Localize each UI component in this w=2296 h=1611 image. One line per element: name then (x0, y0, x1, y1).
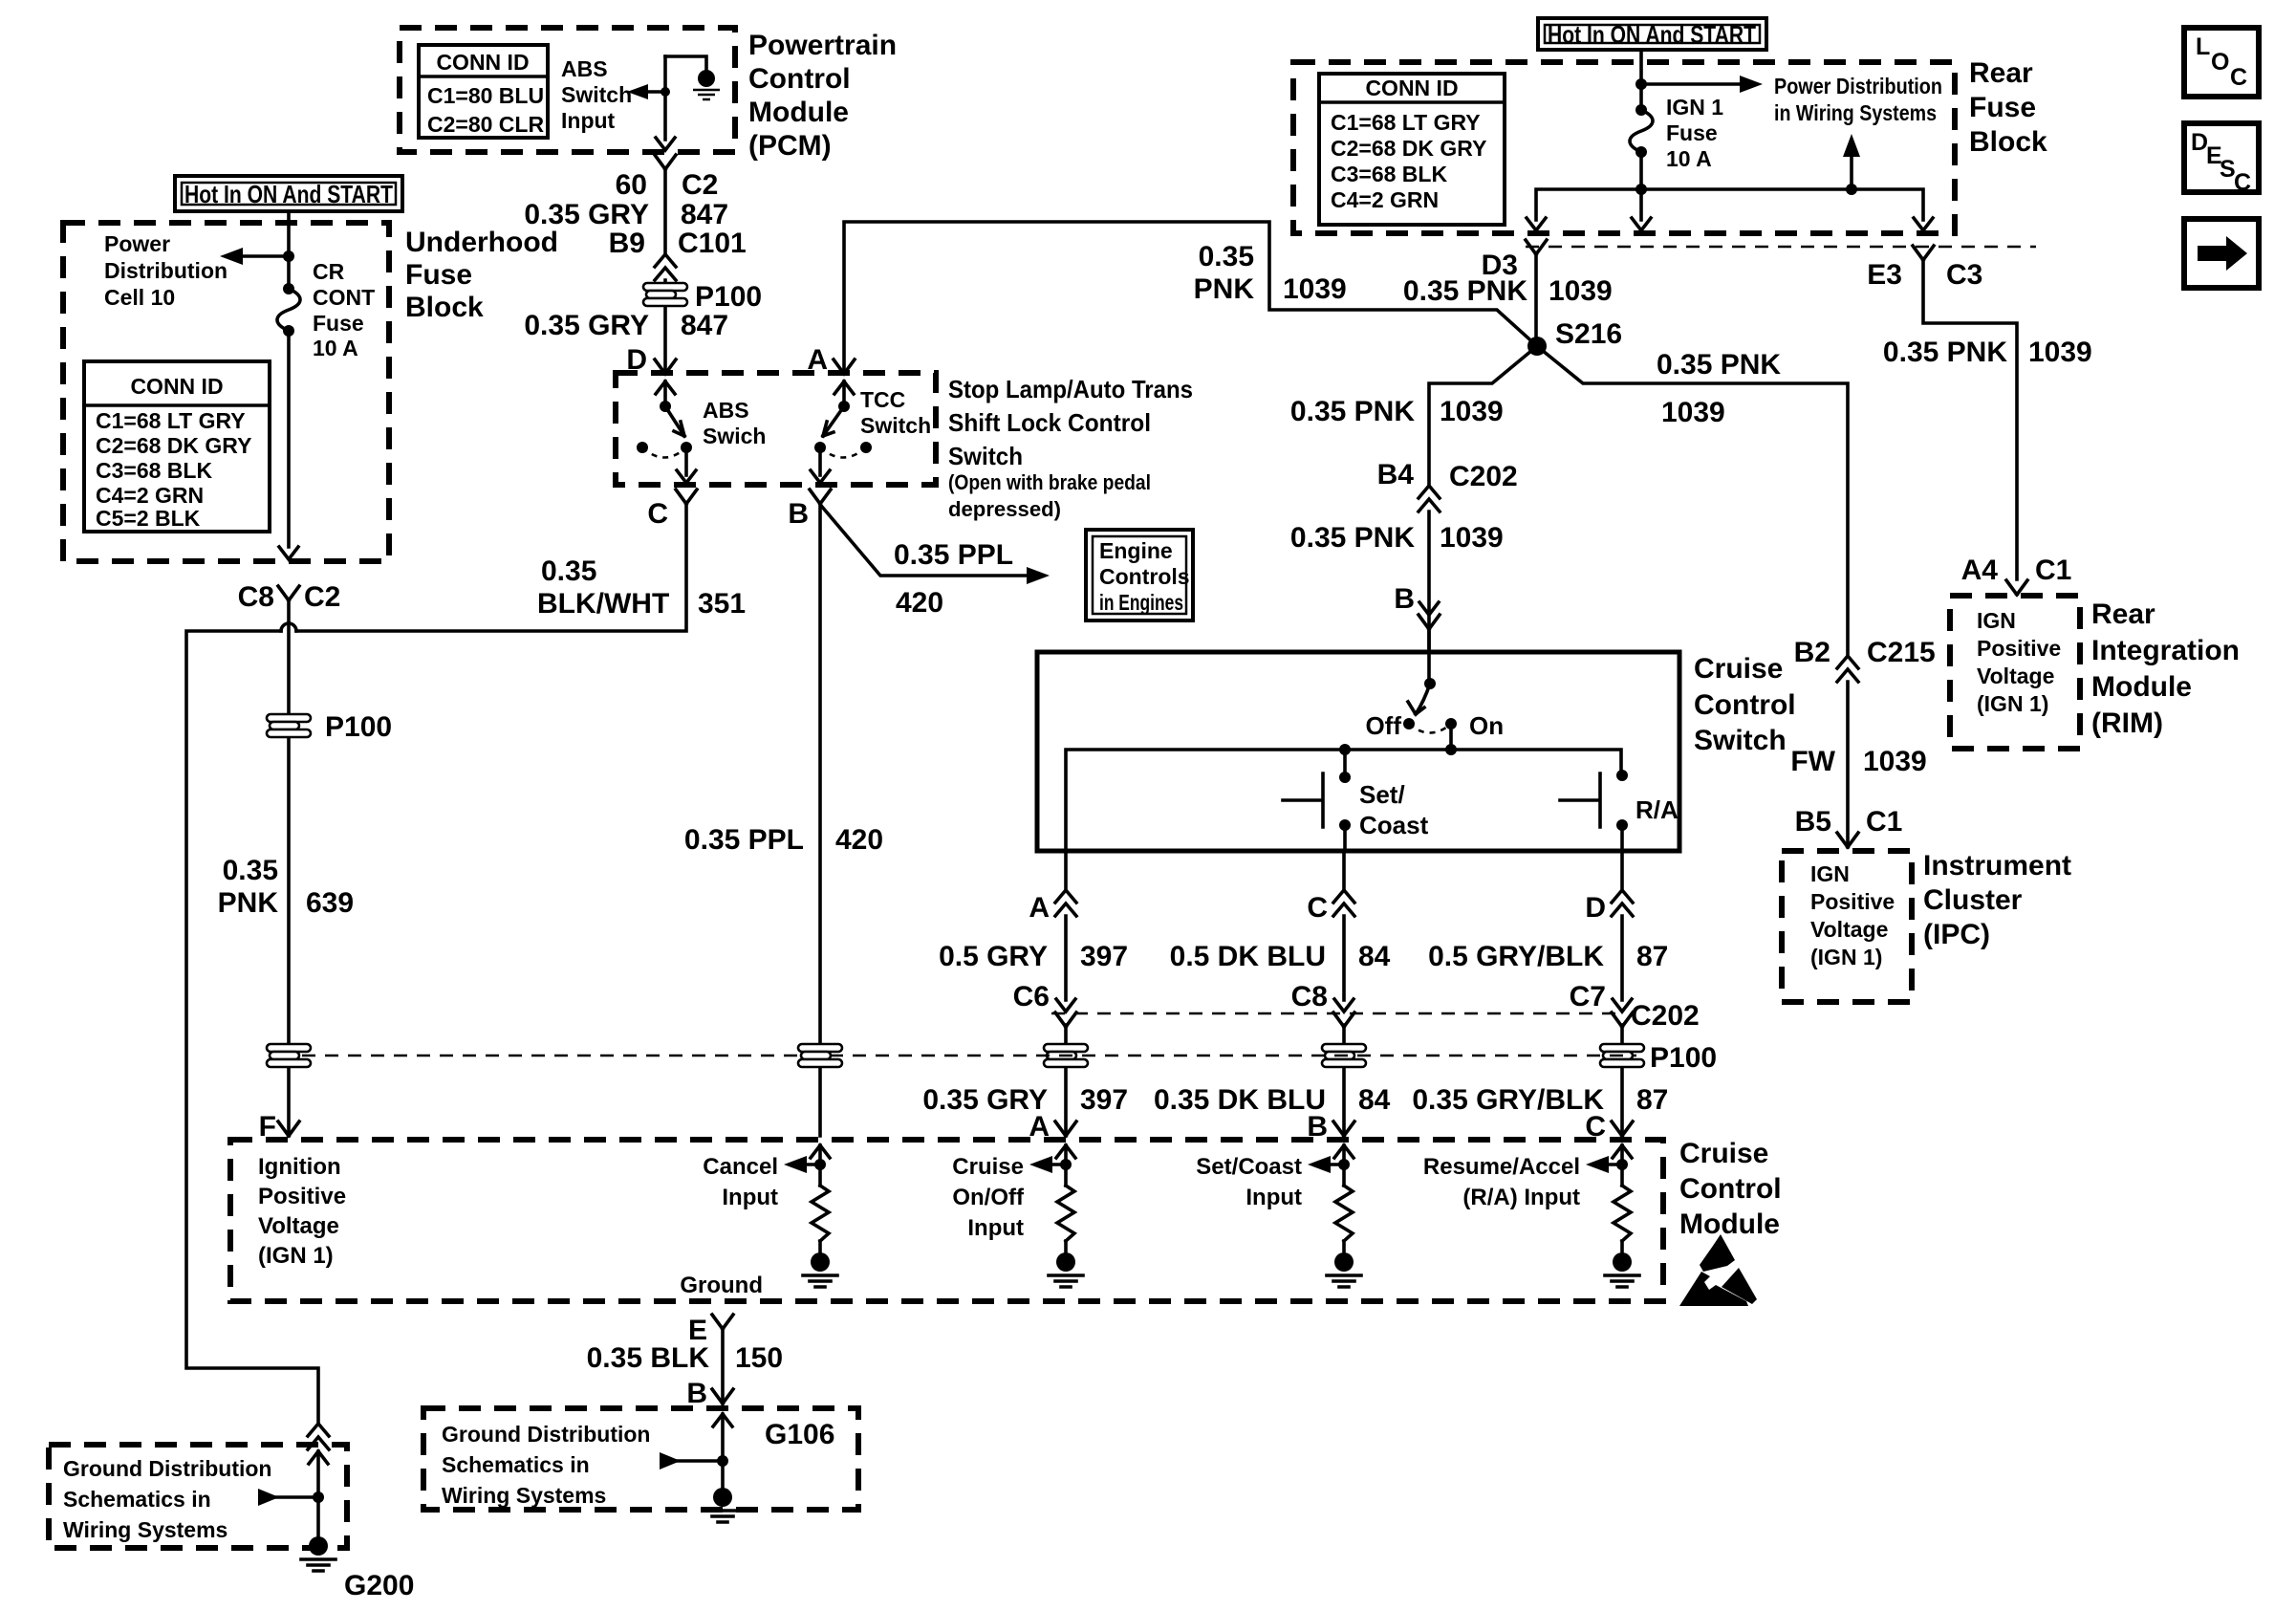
arrow: up to Power Distribution (1843, 134, 1860, 189)
svg-text:Module: Module (1679, 1208, 1780, 1240)
svg-text:847: 847 (681, 199, 728, 230)
wire: 0.35 PPL 420 down to module D (818, 504, 822, 1136)
svg-text:Switch: Switch (948, 442, 1023, 470)
module input: Resume/Accel (C) (1613, 1145, 1632, 1158)
svg-text:639: 639 (306, 887, 354, 919)
wire: S216 to IPC branch (down-right) (1537, 346, 1848, 654)
splice S216 (1527, 337, 1547, 356)
CONN ID table (PCM) (419, 45, 548, 138)
labels: 0.35 / PNK / 1039 (A to S216) (1194, 241, 1347, 305)
wire: S216 to B4/C202 (down-left) (1429, 346, 1537, 486)
labels: FW / 1039 (1790, 746, 1926, 777)
R/A pushbutton (1560, 770, 1628, 851)
svg-text:C202: C202 (1449, 461, 1518, 492)
svg-text:Swich: Swich (703, 424, 766, 448)
LOC box (2184, 28, 2259, 97)
svg-text:Input: Input (561, 108, 616, 133)
svg-text:150: 150 (735, 1342, 783, 1374)
connector C8/C2 labels (238, 581, 341, 613)
svg-text:C202: C202 (1631, 1000, 1700, 1032)
wire: PNK 639 from C8/C2 down to F (287, 600, 291, 1136)
node: power distribution tap (283, 250, 294, 262)
svg-text:Rear: Rear (1969, 57, 2033, 89)
svg-text:P100: P100 (695, 281, 762, 313)
svg-text:0.5 GRY/BLK: 0.5 GRY/BLK (1428, 941, 1604, 972)
connector Y at IPC pin B5/C1 (1837, 833, 1858, 847)
wire hop over PNK 639 (281, 623, 296, 631)
svg-text:Control: Control (748, 63, 851, 95)
svg-text:S216: S216 (1555, 318, 1622, 350)
svg-text:0.35 GRY: 0.35 GRY (524, 310, 649, 341)
wire + arrow inside G200 (258, 1451, 328, 1536)
svg-text:60: 60 (616, 169, 647, 201)
svg-text:0.35 GRY: 0.35 GRY (524, 199, 649, 230)
svg-text:Instrument: Instrument (1923, 850, 2071, 882)
text: Ground Distribution Schematics in Wiring Systems (G200) (63, 1456, 271, 1542)
connector P100 dashed line (302, 1055, 1636, 1057)
svg-text:TCC: TCC (860, 387, 905, 412)
svg-text:0.35 PNK: 0.35 PNK (1403, 275, 1527, 307)
svg-text:C2: C2 (304, 581, 340, 613)
svg-text:C: C (2234, 169, 2251, 196)
svg-text:C8: C8 (1291, 981, 1328, 1012)
svg-text:Power: Power (104, 231, 170, 256)
text: ABS Switch Input (561, 56, 632, 133)
wire + arrow inside G106 (660, 1414, 732, 1488)
Stop Lamp/Auto Trans Shift Lock Control Switch dashed box (616, 373, 936, 485)
svg-text:Fuse: Fuse (1666, 120, 1718, 145)
labels: 0.35 PPL / 420 (vertical run) (684, 824, 883, 856)
svg-text:Ground Distribution: Ground Distribution (63, 1456, 271, 1481)
svg-text:Cruise: Cruise (1679, 1138, 1768, 1169)
svg-text:(PCM): (PCM) (748, 130, 832, 162)
labels: 0.35 GRY/BLK / 87 (1412, 1084, 1668, 1116)
svg-text:84: 84 (1358, 941, 1391, 972)
contact: On (1445, 718, 1457, 729)
svg-text:C215: C215 (1867, 637, 1936, 668)
svg-text:B5: B5 (1795, 806, 1831, 838)
wire: hot feed into rear fuse block (1639, 50, 1643, 110)
wire: switch output D (1620, 851, 1624, 1136)
svg-text:87: 87 (1636, 941, 1668, 972)
label: Rear Fuse Block (1969, 57, 2047, 158)
wire: PCM ABS switch input (663, 56, 667, 140)
svg-text:IGN: IGN (1977, 608, 2016, 633)
wire: BLK/WHT 351 from C to far left (296, 504, 686, 631)
svg-text:P100: P100 (325, 711, 392, 743)
labels: B9 / C101 (609, 228, 747, 259)
connector chevrons at G200 entry (308, 1424, 329, 1449)
svg-text:Hot In ON And START: Hot In ON And START (1548, 20, 1756, 49)
svg-text:Cell 10: Cell 10 (104, 285, 175, 310)
ground G106 (705, 1488, 740, 1522)
wire: 0.35 BLK 150 to G106 (721, 1329, 725, 1404)
svg-text:Schematics in: Schematics in (63, 1487, 211, 1512)
svg-text:L: L (2196, 33, 2210, 60)
svg-text:Underhood: Underhood (405, 227, 558, 258)
Cruise Control Module dashed box (230, 1140, 1663, 1301)
connector Y at C8/C2 (278, 586, 299, 600)
wire: TCC A up and over to S216 (844, 222, 1537, 374)
bulkhead connector P100 (GRY 847) (643, 283, 687, 306)
svg-text:CONT: CONT (313, 285, 375, 310)
svg-text:Coast: Coast (1359, 811, 1429, 839)
svg-text:C4=2 GRN: C4=2 GRN (1331, 187, 1439, 212)
svg-text:(Open with brake pedal: (Open with brake pedal (948, 470, 1151, 494)
node: bus at On (1445, 744, 1457, 755)
Underhood Fuse Block dashed box (63, 223, 389, 561)
svg-text:ABS: ABS (703, 398, 749, 423)
svg-text:0.35: 0.35 (541, 555, 596, 587)
svg-text:P100: P100 (1650, 1042, 1717, 1074)
labels: 0.35 PNK / 1039 (S216 to B4) (1290, 396, 1504, 427)
svg-text:0.35 PPL: 0.35 PPL (894, 539, 1013, 571)
svg-text:(IGN 1): (IGN 1) (1977, 691, 2048, 716)
svg-text:1039: 1039 (2028, 337, 2092, 368)
on/off switch blade (1408, 678, 1436, 714)
wire: fuse output bus (1536, 152, 1923, 220)
svg-text:C101: C101 (678, 228, 747, 259)
svg-text:10 A: 10 A (1666, 146, 1712, 171)
connector Y at module pin E (712, 1315, 733, 1329)
labels: E3 / C3 (1867, 259, 1982, 291)
label: Cruise Control Switch (1694, 653, 1796, 756)
labels: 0.35 DK BLU / 84 (1154, 1084, 1391, 1116)
svg-text:0.35 PNK: 0.35 PNK (1883, 337, 2007, 368)
text: IGN Positive Voltage (IGN 1) (IPC) (1810, 861, 1895, 969)
svg-text:Module: Module (2091, 671, 2192, 703)
svg-text:84: 84 (1358, 1084, 1391, 1116)
svg-text:in Engines: in Engines (1099, 590, 1183, 615)
label: Cruise Control Module (1679, 1138, 1782, 1240)
svg-text:C1=68 LT GRY: C1=68 LT GRY (96, 408, 246, 433)
svg-text:Engine: Engine (1099, 538, 1173, 563)
svg-text:On/Off: On/Off (952, 1185, 1025, 1210)
svg-text:Shift Lock Control: Shift Lock Control (948, 408, 1151, 437)
svg-text:CONN ID: CONN ID (1365, 76, 1458, 100)
svg-text:Voltage: Voltage (1810, 917, 1888, 942)
svg-text:depressed): depressed) (948, 497, 1061, 521)
svg-text:R/A: R/A (1635, 795, 1679, 824)
labels: 0.35 GRY / 847 (524, 199, 728, 230)
connector C202 dashed line (1051, 1012, 1615, 1015)
node: bus junction right (1846, 184, 1857, 195)
svg-text:(R/A) Input: (R/A) Input (1462, 1185, 1580, 1210)
svg-text:C1: C1 (1866, 806, 1902, 838)
connector Y at E3/C3 (1913, 246, 1934, 260)
svg-text:C4=2 GRN: C4=2 GRN (96, 483, 204, 508)
bulkhead connector P100 (PPL 420) (798, 1044, 842, 1067)
svg-text:C: C (1307, 892, 1328, 924)
CONN ID table (rear fuse block) (1319, 74, 1505, 225)
svg-text:C2=68 DK GRY: C2=68 DK GRY (96, 433, 251, 458)
ESD sensitive symbol (1679, 1234, 1757, 1306)
svg-text:Schematics in: Schematics in (442, 1452, 590, 1477)
label: Cruise On/Off Input (952, 1154, 1025, 1241)
label: Instrument Cluster (IPC) (1923, 850, 2071, 950)
wire: circuit 847 upper (663, 169, 667, 254)
label: ABS Swich (703, 398, 766, 448)
connector Y at stop lamp switch pin D (655, 359, 676, 374)
svg-text:Input: Input (722, 1185, 778, 1210)
label: Powertrain Control Module (PCM) (748, 30, 897, 162)
module input: Cancel (D) (811, 1145, 830, 1158)
text: Power Distribution in Wiring Systems (1774, 74, 1942, 125)
svg-text:CONN ID: CONN ID (130, 374, 223, 399)
svg-text:Positive: Positive (1977, 636, 2061, 661)
ground symbol inside PCM (665, 56, 720, 99)
Set/Coast pushbutton (1283, 750, 1351, 851)
svg-text:On: On (1469, 711, 1504, 740)
svg-text:Fuse: Fuse (405, 259, 472, 291)
connector Y at stop lamp pin C (676, 490, 697, 504)
svg-text:Ignition: Ignition (258, 1154, 341, 1180)
node: bus at Set/Coast (1339, 744, 1351, 755)
svg-text:Input: Input (1245, 1185, 1302, 1210)
svg-text:Power Distribution: Power Distribution (1774, 74, 1942, 98)
Instrument Cluster IGN dashed box (1782, 851, 1912, 1002)
text: Ground Distribution Schematics in Wiring Systems (G106) (442, 1422, 650, 1508)
svg-text:C1=80 BLU: C1=80 BLU (427, 83, 544, 108)
svg-text:0.35: 0.35 (223, 855, 278, 886)
connector Y at module pin F (278, 1121, 299, 1136)
TCC switch (inside) (811, 381, 872, 483)
svg-text:C1=68 LT GRY: C1=68 LT GRY (1331, 110, 1481, 135)
svg-text:420: 420 (896, 587, 943, 619)
connector dashed line C3 row (1526, 246, 2036, 249)
Engine Controls in Engines box (1086, 530, 1193, 620)
svg-text:Voltage: Voltage (258, 1213, 339, 1239)
label: Stop Lamp/Auto Trans Shift Lock Control Switch (948, 375, 1193, 521)
node: power distribution tap (RFB) (1635, 78, 1647, 90)
labels: B2 / C215 (1794, 637, 1936, 668)
labels: 0.5 GRY / 397 (939, 941, 1128, 972)
svg-text:C: C (2230, 64, 2247, 91)
svg-text:C2=68 DK GRY: C2=68 DK GRY (1331, 136, 1486, 161)
wire: switch bus (1066, 750, 1621, 851)
svg-text:Powertrain: Powertrain (748, 30, 897, 61)
wire: BLK/WHT to lower left (186, 631, 318, 1424)
svg-text:in Wiring Systems: in Wiring Systems (1774, 100, 1937, 125)
arrow: ABS Switch Input (627, 84, 665, 99)
label: Set/ Coast (1359, 780, 1429, 839)
connector Y at module pin B (1333, 1121, 1354, 1136)
wire: fuse to C8 exit (287, 331, 291, 547)
svg-text:Wiring Systems: Wiring Systems (63, 1517, 227, 1542)
svg-text:1039: 1039 (1549, 275, 1613, 307)
svg-text:BLK/WHT: BLK/WHT (537, 588, 669, 620)
svg-text:PNK: PNK (1194, 273, 1255, 305)
Cruise Control Switch box (1037, 652, 1679, 851)
text: Power Distribution Cell 10 (104, 231, 227, 310)
svg-text:0.35 BLK: 0.35 BLK (587, 1342, 710, 1374)
svg-text:A: A (1029, 892, 1050, 924)
svg-text:(RIM): (RIM) (2091, 708, 2163, 739)
svg-text:C2: C2 (682, 169, 718, 201)
connector C7 at C202 (1613, 999, 1632, 1012)
wire: branch B to Engine Controls (822, 507, 1050, 584)
svg-text:C7: C7 (1570, 981, 1606, 1012)
connector B9/C101 (655, 254, 676, 280)
svg-text:0.35 PNK: 0.35 PNK (1657, 349, 1781, 381)
svg-text:O: O (2211, 49, 2229, 76)
connector C6 at C202 (1056, 999, 1075, 1012)
connector Y at module pin C (1612, 1121, 1633, 1136)
svg-text:Set/: Set/ (1359, 780, 1405, 809)
svg-text:420: 420 (835, 824, 883, 856)
svg-text:Controls: Controls (1099, 564, 1190, 589)
svg-text:IGN: IGN (1810, 861, 1850, 886)
label: IGN 1 Fuse 10 A (1666, 95, 1723, 171)
svg-text:Switch: Switch (860, 413, 931, 438)
dashed throw arc (off/on) (1409, 724, 1451, 733)
svg-text:Positive: Positive (1810, 889, 1895, 914)
header box: Hot In ON And START (right) (1538, 18, 1766, 50)
svg-text:Distribution: Distribution (104, 258, 227, 283)
svg-text:C3=68 BLK: C3=68 BLK (96, 458, 212, 483)
labels: 0.35 GRY / 847 (lower) (524, 310, 728, 341)
arrows at RFB bottom edge (1527, 218, 1546, 230)
connector B4/C202 (1419, 486, 1440, 512)
svg-text:0.5 GRY: 0.5 GRY (939, 941, 1048, 972)
labels: 0.35 PPL / 420 (894, 539, 1013, 619)
labels: A4 / C1 (1961, 555, 2072, 586)
G200 dashed box (49, 1445, 347, 1548)
labels: 0.35 PNK / 1039 (E3) (1883, 337, 2092, 368)
svg-text:Block: Block (1969, 126, 2047, 158)
connector Y at PCM pin 60/C2 (655, 155, 676, 169)
arrow box (2184, 219, 2259, 288)
svg-text:Cruise: Cruise (1694, 653, 1783, 685)
connector C8 at C202 (1334, 999, 1354, 1012)
svg-text:C6: C6 (1013, 981, 1050, 1012)
label: Underhood Fuse Block (405, 227, 558, 323)
connector B2/C215 (1837, 656, 1858, 682)
svg-text:Fuse: Fuse (313, 311, 364, 336)
svg-text:Cluster: Cluster (1923, 884, 2023, 916)
svg-text:0.35 GRY/BLK: 0.35 GRY/BLK (1412, 1084, 1604, 1116)
svg-text:0.35 DK BLU: 0.35 DK BLU (1154, 1084, 1326, 1116)
module input: Cruise On/Off (A) (1056, 1145, 1075, 1158)
wire: E3 to RIM A4 (1923, 260, 2017, 579)
svg-text:0.35 PNK: 0.35 PNK (1290, 396, 1415, 427)
svg-text:Ground Distribution: Ground Distribution (442, 1422, 650, 1447)
svg-text:Cancel: Cancel (703, 1154, 778, 1180)
svg-text:A: A (807, 344, 828, 376)
svg-text:C: C (647, 498, 668, 530)
svg-text:C5=2 BLK: C5=2 BLK (96, 506, 201, 531)
wire: C215 to IPC B5 (1846, 682, 1850, 847)
svg-text:CONN ID: CONN ID (436, 50, 529, 75)
svg-text:Control: Control (1694, 689, 1796, 721)
svg-text:(IGN 1): (IGN 1) (1810, 945, 1882, 969)
connector at switch pin C (1333, 890, 1354, 916)
svg-text:IGN 1: IGN 1 (1666, 95, 1723, 120)
connector at cruise switch pin B (1419, 602, 1439, 615)
connector Y at module pin A (1055, 1121, 1076, 1136)
svg-text:Ground: Ground (680, 1273, 763, 1298)
svg-text:G200: G200 (344, 1570, 414, 1601)
svg-text:Module: Module (748, 97, 849, 128)
connector at switch pin D (1612, 890, 1633, 916)
arrow: to Power Distribution in Wiring Systems (1641, 76, 1763, 93)
fuse: CR CONT Fuse 10 A (277, 283, 300, 337)
svg-text:B: B (1394, 583, 1415, 615)
svg-text:397: 397 (1080, 941, 1128, 972)
node: bus junction at fuse (1635, 184, 1647, 195)
svg-text:0.35 PPL: 0.35 PPL (684, 824, 804, 856)
labels: 60 / C2 (616, 169, 719, 201)
connector Y at G106 pin B (712, 1389, 733, 1404)
svg-text:C1: C1 (2035, 555, 2071, 586)
svg-text:C3=68 BLK: C3=68 BLK (1331, 162, 1447, 186)
svg-text:PNK: PNK (218, 887, 279, 919)
svg-text:Fuse: Fuse (1969, 92, 2036, 123)
svg-text:D: D (1585, 892, 1606, 924)
label: Set/Coast Input (1196, 1154, 1302, 1210)
svg-text:C3: C3 (1946, 259, 1982, 291)
wire: switch output C (1342, 851, 1346, 1136)
svg-text:Positive: Positive (258, 1184, 346, 1209)
labels: 0.35 BLK/WHT / 351 (537, 555, 746, 620)
ground G200 (301, 1536, 336, 1571)
svg-text:847: 847 (681, 310, 728, 341)
header box: Hot In ON And START (left) (175, 176, 402, 211)
bulkhead connector P100 row symbol (PNK 639) (267, 1044, 311, 1067)
svg-text:10 A: 10 A (313, 336, 358, 360)
bulkhead connector P100 (PNK 639) (267, 714, 311, 737)
svg-text:B2: B2 (1794, 637, 1830, 668)
svg-text:FW: FW (1790, 746, 1835, 777)
svg-text:1039: 1039 (1661, 397, 1725, 428)
svg-text:(IGN 1): (IGN 1) (258, 1243, 334, 1269)
bulkhead connector P100 (84) (1322, 1044, 1366, 1067)
connector Y at stop lamp pin B (810, 490, 831, 504)
labels: 0.35 PNK / 1039 (S216 right) (1657, 349, 1781, 428)
label: Resume/Accel (R/A) Input (1423, 1154, 1580, 1210)
svg-text:Input: Input (967, 1215, 1024, 1241)
svg-text:Control: Control (1679, 1173, 1782, 1205)
wire: switch output A (1064, 851, 1068, 1136)
connector at switch pin A (1055, 890, 1076, 916)
text: Ignition Positive Voltage (IGN 1) (258, 1154, 346, 1269)
contact: Off (1403, 718, 1415, 729)
svg-text:0.35: 0.35 (1199, 241, 1254, 272)
labels: 0.35 GRY / 397 (922, 1084, 1128, 1116)
svg-text:C2=80 CLR: C2=80 CLR (427, 112, 544, 137)
CONN ID table (underhood fuse block) (84, 361, 270, 532)
node: ABS switch input tap (661, 87, 670, 97)
svg-text:Rear: Rear (2091, 599, 2155, 630)
bulkhead connector P100 (397) (1044, 1044, 1088, 1067)
svg-text:Hot In ON And START: Hot In ON And START (184, 180, 393, 208)
labels: B4 / C202 (1377, 459, 1518, 492)
arrow: to Power Distribution Cell 10 (220, 248, 289, 265)
svg-text:1039: 1039 (1863, 746, 1927, 777)
svg-text:G106: G106 (765, 1419, 834, 1450)
svg-text:Block: Block (405, 292, 484, 323)
svg-text:B: B (686, 1378, 707, 1409)
wire: D3 down to S216 (1534, 254, 1538, 346)
Rear Fuse Block dashed box (1293, 62, 1955, 233)
Rear Integration Module IGN dashed box (1950, 596, 2080, 749)
svg-text:Voltage: Voltage (1977, 664, 2054, 688)
svg-text:C8: C8 (238, 581, 274, 613)
svg-text:1039: 1039 (1440, 396, 1504, 427)
svg-text:(IPC): (IPC) (1923, 919, 1990, 950)
labels: 0.35 PNK / 1039 (B4 to B) (1290, 522, 1504, 554)
label: CR CONT Fuse 10 A (313, 259, 375, 360)
